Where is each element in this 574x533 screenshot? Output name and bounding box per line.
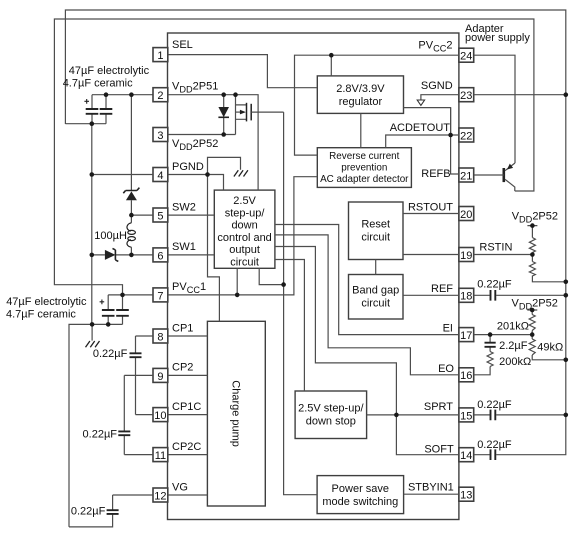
resistor R4 49k bbox=[529, 339, 535, 355]
svg-text:2.5V: 2.5V bbox=[233, 195, 256, 207]
pin 2 box bbox=[153, 88, 168, 102]
junction: PGND node inside IC bbox=[205, 172, 210, 177]
wire: EI divider verticals bbox=[527, 310, 566, 360]
junction: zener/inductor at SW2 node bbox=[129, 213, 134, 218]
wire: regulator bottom stub to box2 bbox=[360, 113, 362, 147]
wire: box3 bottom stub to gate net bbox=[259, 268, 283, 284]
svg-text:EO: EO bbox=[438, 363, 454, 375]
svg-text:2: 2 bbox=[157, 90, 163, 102]
capacitor C1 47uF electrolytic (top-left) bbox=[84, 95, 98, 124]
wire: regulator top stub to PVCC2 bbox=[330, 55, 332, 76]
block: 2.5V step-up/down stop bbox=[295, 391, 367, 439]
pin 4 box bbox=[153, 168, 168, 182]
junction: cap bank1 bottom to ground rail bbox=[90, 121, 95, 126]
wire: reset to band gap stub bbox=[375, 260, 377, 275]
wire: ACDETOUT net regulator right to pin22 and down to pin21 REFB bbox=[404, 108, 459, 174]
resistor R2 (RSTIN lower) bbox=[529, 262, 565, 282]
svg-text:0.22µF: 0.22µF bbox=[477, 279, 512, 291]
svg-text:18: 18 bbox=[460, 291, 472, 303]
chassis ground symbol (internal) bbox=[234, 170, 248, 176]
SGND arrow symbol bbox=[417, 100, 424, 105]
svg-text:2.5V step-up/: 2.5V step-up/ bbox=[298, 402, 364, 414]
junction: C2 top on VDD2P51 net bbox=[104, 92, 109, 97]
wire: stop box right to SPRT pin15 bbox=[367, 414, 459, 416]
svg-text:0.22µF: 0.22µF bbox=[477, 439, 512, 451]
svg-text:0.22µF: 0.22µF bbox=[477, 399, 512, 411]
wire: VDD2P51 pin2 internal to box3 top bbox=[168, 95, 258, 190]
inductor L1 100uH bbox=[127, 215, 135, 255]
pin 9 box bbox=[153, 368, 168, 382]
svg-text:SW2: SW2 bbox=[172, 201, 196, 213]
svg-text:9: 9 bbox=[157, 371, 163, 383]
wire: SOFT external cap to right rail bbox=[474, 454, 497, 456]
junction: MOSFET source leg on VDD2P51 net bbox=[233, 92, 238, 97]
wire: box3 output B to EO pin16 bbox=[275, 235, 459, 375]
diode D3 (SW1 to PGND rail) bbox=[92, 248, 153, 261]
pin 12 box bbox=[153, 488, 168, 502]
wire: box3 bottom stub to PVCC1 bbox=[236, 268, 238, 295]
svg-text:15: 15 bbox=[460, 410, 472, 422]
pin 18 box bbox=[459, 288, 474, 302]
wire: PVCC1 pin7 internal to box2 via right riser bbox=[168, 177, 317, 295]
svg-text:3: 3 bbox=[157, 130, 163, 142]
svg-text:17: 17 bbox=[460, 330, 472, 342]
wire: top SGND loop (y=10 across, down right side x=565.8) bbox=[65, 10, 565, 455]
capacitor C11 0.22uF (SOFT) bbox=[491, 449, 496, 460]
junction: SGND pin23 on right rail bbox=[564, 92, 569, 97]
wire: ground stub below cap bank2 bbox=[91, 324, 93, 340]
wire: SGND pin23 external to right rail bbox=[474, 94, 566, 96]
capacitor C9 2.2uF + resistor R5 200k branch bbox=[474, 335, 496, 375]
svg-text:201kΩ: 201kΩ bbox=[497, 320, 529, 332]
block: Reset circuit bbox=[349, 202, 404, 260]
junction: ACDETOUT/REFB tee bbox=[448, 133, 453, 138]
wire: CP1 pin8 bbox=[136, 335, 208, 337]
wire: PGND pin4 external bbox=[92, 174, 153, 176]
junction: C4 top on PVCC1 net bbox=[120, 293, 125, 298]
junction: box3 stub on PVCC1 wire bbox=[235, 293, 240, 298]
svg-text:VG: VG bbox=[172, 481, 188, 493]
svg-text:AC adapter detector: AC adapter detector bbox=[320, 174, 409, 185]
svg-text:down: down bbox=[231, 220, 257, 232]
block: 2.5V step-up/down control and output circuit bbox=[214, 190, 275, 268]
svg-text:19: 19 bbox=[460, 250, 472, 262]
svg-text:8: 8 bbox=[157, 331, 163, 343]
wire: SW2 pin5 external bbox=[131, 214, 153, 216]
resistor R3 201k bbox=[529, 315, 535, 331]
junction: diode D1 bottom on VDD2P52 net bbox=[221, 132, 226, 137]
wire: ACDETOUT pin22 wire and box2 top stub bbox=[386, 108, 459, 148]
IC outline bbox=[168, 33, 459, 520]
svg-text:EI: EI bbox=[443, 322, 453, 334]
svg-text:0.22µF: 0.22µF bbox=[93, 348, 128, 360]
svg-text:16: 16 bbox=[460, 370, 472, 382]
junction: zener branch on VDD2P51 net bbox=[129, 92, 134, 97]
svg-text:mode switching: mode switching bbox=[322, 496, 398, 508]
svg-text:SGND: SGND bbox=[421, 80, 453, 92]
pin 15 box bbox=[459, 408, 474, 422]
svg-text:47µF electrolytic: 47µF electrolytic bbox=[6, 296, 87, 308]
svg-text:circuit: circuit bbox=[361, 298, 390, 310]
svg-text:VDD2P52: VDD2P52 bbox=[172, 138, 218, 152]
svg-text:Reverse current: Reverse current bbox=[329, 151, 400, 162]
svg-text:2.2µF: 2.2µF bbox=[499, 340, 528, 352]
pin 10 box bbox=[153, 408, 168, 422]
svg-text:Band gap: Band gap bbox=[352, 285, 399, 297]
wire: box3 output A to EI pin17 bbox=[275, 225, 459, 335]
wire: REFB pin21 external to PNP base bbox=[474, 174, 504, 176]
wire: PVCC1 pin7 external (cap bank2 top wire) bbox=[108, 294, 153, 296]
svg-text:step-up/: step-up/ bbox=[225, 207, 266, 219]
svg-text:7: 7 bbox=[157, 290, 163, 302]
svg-text:Power save: Power save bbox=[332, 483, 389, 495]
junction: SPRT cap on right rail bbox=[564, 413, 569, 418]
svg-text:2.8V/3.9V: 2.8V/3.9V bbox=[336, 83, 385, 95]
svg-text:RSTOUT: RSTOUT bbox=[408, 202, 453, 214]
svg-text:47µF electrolytic: 47µF electrolytic bbox=[69, 65, 150, 77]
wire: SW2 pin5 internal bbox=[168, 214, 215, 216]
wire: EI external to divider bbox=[474, 334, 533, 336]
junction: box3 bottom stub on gate net bbox=[281, 282, 286, 287]
pin 14 box bbox=[459, 448, 474, 462]
svg-text:49kΩ: 49kΩ bbox=[537, 342, 563, 354]
capacitor C6 0.22uF (CP2-CP2C) bbox=[83, 375, 131, 454]
svg-text:circuit: circuit bbox=[230, 257, 259, 269]
svg-text:6: 6 bbox=[157, 250, 163, 262]
pin 20 box bbox=[459, 207, 474, 221]
pin 23 box bbox=[459, 88, 474, 102]
svg-text:circuit: circuit bbox=[361, 232, 390, 244]
svg-text:24: 24 bbox=[460, 51, 472, 63]
junction: C3 bottom on cap bank2 bottom wire bbox=[106, 322, 111, 327]
transistor Q2 p-MOSFET bbox=[236, 95, 284, 135]
svg-text:11: 11 bbox=[155, 450, 166, 462]
junction: 49k bottom on right rail bbox=[564, 358, 569, 363]
transistor Q1 PNP bbox=[504, 163, 515, 191]
capacitor C7 0.22uF (VG) bbox=[69, 495, 119, 527]
chassis ground symbol (external) bbox=[86, 341, 100, 347]
power terminal VDD2P52 (RSTIN divider) bbox=[530, 223, 535, 228]
wire: SGND pin23 internal stub bbox=[421, 95, 459, 100]
svg-text:VDD2P51: VDD2P51 bbox=[172, 81, 218, 95]
svg-text:power supply: power supply bbox=[465, 32, 530, 44]
pin 11 box bbox=[153, 448, 168, 462]
wire: SEL pin1 to regulator left bbox=[168, 55, 317, 88]
svg-text:12: 12 bbox=[154, 490, 166, 502]
svg-text:20: 20 bbox=[460, 209, 472, 221]
capacitor C2 4.7uF ceramic (top-left) bbox=[100, 95, 113, 124]
svg-text:RSTIN: RSTIN bbox=[479, 242, 512, 254]
pin 22 box bbox=[459, 128, 474, 142]
junction: EI at 201k/49k divider bbox=[530, 332, 535, 337]
svg-text:SPRT: SPRT bbox=[424, 401, 453, 413]
pin 5 box bbox=[153, 208, 168, 222]
svg-text:SW1: SW1 bbox=[172, 241, 196, 253]
pin 19 box bbox=[459, 248, 474, 262]
junction: REF cap on right rail bbox=[564, 293, 569, 298]
junction: RSTIN divider bottom on right rail bbox=[564, 280, 569, 285]
wire: REF band gap to pin18 bbox=[403, 294, 459, 296]
resistor R1 (RSTIN upper) bbox=[529, 238, 535, 253]
wire: cap bank1 bottom wire bbox=[65, 123, 106, 125]
wire: REF external cap to right rail bbox=[474, 294, 566, 296]
svg-text:PGND: PGND bbox=[172, 161, 204, 173]
pin 3 box bbox=[153, 128, 168, 142]
block: Band gap circuit bbox=[349, 275, 404, 320]
svg-text:5: 5 bbox=[157, 210, 163, 222]
svg-text:control and: control and bbox=[217, 232, 271, 244]
pin 24 box bbox=[459, 48, 474, 62]
wire: CP2 pin9 bbox=[124, 374, 207, 376]
pin 8 box bbox=[153, 329, 168, 343]
svg-text:13: 13 bbox=[460, 490, 472, 502]
svg-text:down stop: down stop bbox=[306, 415, 356, 427]
pin 16 box bbox=[459, 368, 474, 382]
wire: RSTIN reset box to pin19 bbox=[403, 254, 459, 256]
svg-text:Charge pump: Charge pump bbox=[230, 380, 242, 447]
junction: ground stub under cap bank2 bbox=[90, 322, 95, 327]
svg-text:22: 22 bbox=[460, 130, 472, 142]
svg-text:REF: REF bbox=[431, 283, 453, 295]
power terminal VDD2P52 (EI divider) bbox=[530, 308, 535, 313]
wire: SW1 pin6 internal bbox=[168, 254, 215, 256]
junction: diode D3 anode on ground rail bbox=[90, 253, 95, 258]
svg-text:ACDETOUT: ACDETOUT bbox=[390, 122, 451, 134]
wire: box3 output D to stop box bbox=[275, 260, 305, 392]
wire: PVCC2 pin24 external to PNP emitter bbox=[474, 55, 515, 163]
wire: RSTOUT reset box to pin20 bbox=[403, 213, 459, 215]
pin 7 box bbox=[153, 288, 168, 302]
svg-text:CP2: CP2 bbox=[172, 362, 193, 374]
junction: PGND wire on left ground rail bbox=[90, 172, 95, 177]
svg-text:200kΩ: 200kΩ bbox=[499, 356, 531, 368]
svg-text:4.7µF ceramic: 4.7µF ceramic bbox=[63, 78, 133, 90]
zener diode D2 bbox=[123, 95, 139, 215]
pin 21 box bbox=[459, 168, 474, 182]
svg-text:0.22µF: 0.22µF bbox=[83, 428, 118, 440]
svg-text:STBYIN1: STBYIN1 bbox=[408, 481, 454, 493]
wire: box3 output C to SPRT/SOFT bbox=[275, 247, 459, 455]
svg-text:CP1C: CP1C bbox=[172, 401, 201, 413]
svg-text:CP2C: CP2C bbox=[172, 441, 201, 453]
svg-text:regulator: regulator bbox=[339, 96, 383, 108]
svg-text:23: 23 bbox=[460, 90, 472, 102]
capacitor C3 47uF electrolytic (lower bank) bbox=[100, 295, 115, 325]
svg-text:output: output bbox=[229, 244, 260, 256]
svg-text:4.7µF ceramic: 4.7µF ceramic bbox=[6, 308, 76, 320]
svg-text:prevention: prevention bbox=[341, 162, 387, 173]
pin 13 box bbox=[459, 487, 474, 501]
wire: VDD2P52 pin3 internal bbox=[168, 134, 236, 136]
svg-text:VDD2P52: VDD2P52 bbox=[512, 211, 558, 225]
wire: PGND pin4 internal to box3 top + chassis ground + charge pump bbox=[168, 157, 241, 321]
capacitor C4 4.7uF ceramic (lower bank) bbox=[116, 295, 129, 325]
svg-text:0.22µF: 0.22µF bbox=[71, 505, 106, 517]
wire: SPRT external cap to right rail bbox=[474, 414, 566, 416]
wire: VG pin12 bbox=[113, 494, 208, 496]
junction: regulator stub on PVCC2 net bbox=[329, 53, 334, 58]
block: Power save mode switching bbox=[317, 476, 404, 514]
diode D1 internal (pin2 net to pin3 net) bbox=[218, 95, 229, 135]
wire: CP1C pin10 bbox=[136, 414, 208, 416]
svg-text:REFB: REFB bbox=[421, 168, 450, 180]
wire: cap bank1 top wire to pin 2 bbox=[92, 94, 153, 96]
block: Reverse current prevention AC adapter detector bbox=[317, 148, 411, 188]
svg-text:SEL: SEL bbox=[172, 39, 193, 51]
junction: inductor/diode at SW1 node bbox=[129, 253, 134, 258]
wire: MOSFET gate net down to power save box bbox=[284, 112, 318, 495]
wire: STBYIN1 power save to pin13 bbox=[404, 493, 459, 495]
wire: cap bank2 bottom wire and left loop down bbox=[69, 324, 123, 527]
svg-text:100µH: 100µH bbox=[94, 230, 127, 242]
svg-text:10: 10 bbox=[154, 410, 166, 422]
junction: SPRT wire tee to SOFT bbox=[394, 413, 399, 418]
svg-text:CP1: CP1 bbox=[172, 322, 193, 334]
block: Charge pump bbox=[207, 321, 265, 506]
wire: PVCC2 pin24 internal to box2 left bbox=[295, 55, 459, 155]
wire: CP2C pin11 bbox=[124, 454, 207, 456]
capacitor C5 0.22uF (CP1-CP1C) bbox=[93, 336, 142, 415]
svg-text:21: 21 bbox=[460, 170, 472, 182]
pin 17 box bbox=[459, 328, 474, 342]
svg-text:SOFT: SOFT bbox=[424, 443, 454, 455]
pin 1 box bbox=[153, 48, 168, 62]
block: 2.8V/3.9V regulator U-reg bbox=[317, 76, 403, 114]
capacitor C10 0.22uF (SPRT) bbox=[491, 410, 496, 421]
capacitor C8 0.22uF (REF) bbox=[491, 290, 496, 301]
svg-text:4: 4 bbox=[157, 170, 163, 182]
svg-text:14: 14 bbox=[460, 450, 472, 462]
junction: diode D1 top on VDD2P51 net bbox=[221, 92, 226, 97]
pin 6 box bbox=[153, 248, 168, 262]
wire: PVCC1 outer loop from PNP collector via y=19 and left rail x=54.4 bbox=[54, 19, 534, 295]
wire: RSTIN external divider bbox=[474, 226, 538, 276]
wire: left ground rail x=91.8 (cap bottoms to PGND / diode / lower cap bank) bbox=[91, 124, 93, 325]
svg-text:1: 1 bbox=[157, 50, 163, 62]
junction: EI at 2.2uF branch bbox=[488, 332, 493, 337]
svg-text:Reset: Reset bbox=[361, 219, 390, 231]
junction: RSTIN divider middle bbox=[530, 252, 535, 257]
